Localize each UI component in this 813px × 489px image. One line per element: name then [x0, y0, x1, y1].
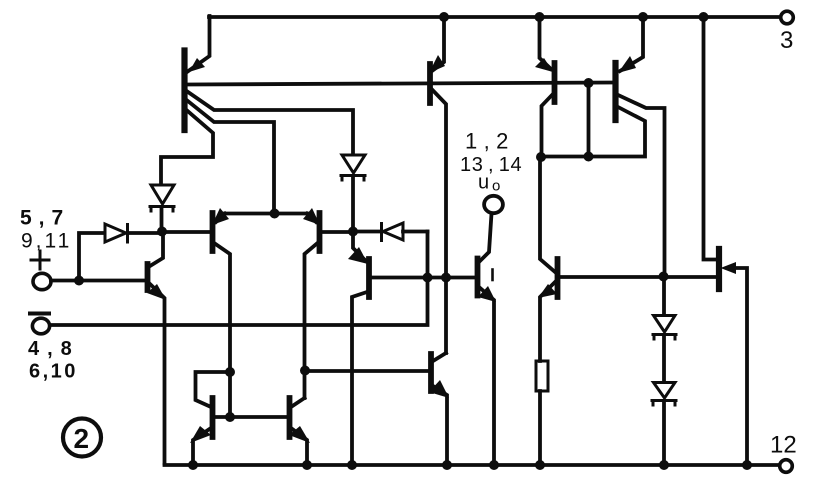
wire Q10 collector from node E	[540, 157, 555, 272]
wire Q1 collector 2 to node A	[187, 100, 275, 208]
junction dot rail x494	[489, 460, 499, 470]
wire Q8 base from node D	[305, 369, 429, 373]
transistor Q6 emitter arrow	[478, 286, 496, 302]
wire Q14 collector diag	[291, 398, 305, 407]
junction dot rail top x643	[638, 12, 648, 22]
diode D1	[150, 185, 174, 211]
wire Q9 emitter from rail	[540, 17, 552, 69]
transistor Q2 input NPN bar	[145, 264, 151, 290]
wire Q5 collector down to bottom rail	[352, 292, 367, 465]
transistor Q7 top PNP bar	[427, 64, 433, 103]
diode D6	[652, 383, 676, 406]
transistor Q14 emitter arrow	[289, 426, 310, 443]
wire Q7 collector down x446	[432, 89, 447, 353]
diode D5	[653, 316, 676, 340]
transistor Q4 emitter arrow	[307, 214, 316, 223]
wire D3 cathode to Q3 base	[128, 232, 210, 233]
junction dot riser base	[423, 273, 433, 283]
svg-text:1 , 2: 1 , 2	[465, 129, 509, 154]
transistor Q13 emitter arrow	[190, 426, 211, 443]
svg-text:6,10: 6,10	[29, 361, 78, 383]
transistor Q14 NPN bar	[287, 398, 293, 437]
wire Q8 collector diag	[433, 353, 446, 361]
transistor Q7 emitter arrow	[429, 55, 445, 73]
wire Q8 emitter to bottom rail	[433, 386, 447, 465]
wire top rail left end down to Q1 emitter	[187, 16, 210, 72]
junction dot rail top x444	[439, 12, 449, 22]
svg-text:3: 3	[780, 27, 793, 54]
junction dot base tap top	[584, 78, 594, 88]
transistor Q10 NPN bar	[555, 259, 561, 297]
wire Q6 emitter to bottom rail	[479, 287, 494, 465]
svg-text:o: o	[492, 178, 500, 195]
wire minus input to vertical riser	[50, 232, 428, 326]
wire D6 to bottom rail	[662, 401, 666, 465]
wire Q11 collector 2 to node E bus	[541, 107, 645, 157]
junction dot rail top x540	[535, 12, 545, 22]
resistor R1	[536, 361, 548, 391]
transistor Q5 PNP bar	[366, 259, 372, 297]
wire Q13 collector loop	[196, 372, 231, 407]
transistor Q9 emitter arrow	[535, 58, 553, 72]
terminal minus input circle	[32, 318, 49, 334]
junction dot rail x664	[659, 460, 669, 470]
svg-text:12: 12	[770, 432, 797, 459]
wire base bus y=277.5 Q5 to Q6	[372, 276, 475, 280]
wire D5 to D6	[662, 335, 666, 382]
wire plus input to Q2 base	[51, 279, 145, 283]
junction dot rail top x703	[699, 12, 709, 22]
junction dot x446 base	[441, 273, 451, 283]
transistor Q2 emitter arrow	[147, 284, 166, 300]
junction dot rail x540	[535, 460, 545, 470]
wire mirror emitter bus y=214	[225, 212, 307, 216]
wire base bus tap x588	[587, 83, 591, 157]
junction dot collector loop	[225, 367, 235, 377]
wire base bus of top PNPs y=83	[188, 83, 613, 85]
wire Q14 emitter to bottom rail	[291, 428, 307, 465]
transistor Q9 PNP bar	[552, 63, 558, 102]
terminal 3 circle	[781, 11, 794, 24]
wire Q5 emitter from node C	[353, 232, 366, 262]
junction dot rail x447	[442, 460, 452, 470]
node C junction dot	[348, 227, 358, 237]
wire top supply rail	[209, 15, 779, 19]
wire input node up and right to diode D3	[79, 233, 104, 280]
wire base node to diode D5	[662, 277, 666, 316]
transistor Q11 emitter arrow	[618, 56, 636, 73]
wire node C to diode D4	[353, 230, 380, 234]
minus sign	[30, 312, 49, 316]
terminal plus input circle	[33, 273, 51, 289]
wire Q11 collector 1 down x664	[618, 95, 665, 277]
junction dot base tap bottom	[584, 152, 594, 162]
wire Q12 collector from rail x703	[704, 17, 717, 260]
svg-text:13 , 14: 13 , 14	[460, 154, 522, 176]
wire Q4 collector down	[305, 243, 318, 398]
svg-text:5,7: 5,7	[20, 207, 70, 230]
transistor Q10 emitter arrow	[538, 284, 557, 298]
junction dot mirror base	[225, 412, 235, 422]
diode D2	[341, 155, 365, 180]
transistor Q4 PNP bar	[317, 213, 323, 251]
wire bottom rail	[165, 463, 780, 467]
node B junction dot	[157, 227, 167, 237]
terminal u0 circle	[484, 196, 503, 213]
transistor Q1 multi-collector PNP bar	[181, 51, 187, 131]
transistor Q8 NPN bar	[428, 354, 434, 391]
svg-text:u: u	[478, 172, 489, 194]
wire Q7 emitter from rail	[432, 17, 444, 71]
svg-text:4,8: 4,8	[28, 338, 80, 360]
wire D2 cathode to node C	[351, 176, 355, 232]
junction dot rail x747	[742, 460, 752, 470]
wire D4 anode to riser	[403, 230, 428, 234]
diode D4	[382, 223, 404, 241]
transistor Q11 dual-collector PNP bar	[612, 63, 618, 120]
wire Q4 base to node C	[322, 230, 352, 234]
transistor Q8 emitter arrow	[429, 380, 449, 398]
junction dot rail x307	[302, 460, 312, 470]
transistor Q6 NPN bar	[475, 259, 481, 296]
svg-text:2: 2	[74, 423, 90, 454]
wire Q9 collector down to node E	[542, 95, 553, 157]
plus sign	[31, 251, 49, 269]
node A circle	[270, 209, 280, 219]
transistor Q12 output PNP bar	[716, 249, 722, 289]
wire Q1 collector 1 to diode D2	[187, 91, 354, 153]
wire Q10 emitter down to resistor R1	[540, 282, 555, 361]
wire u0 terminal to Q6 collector	[479, 214, 492, 263]
wire Q3 collector down	[214, 243, 230, 417]
terminal 12 circle	[780, 460, 793, 473]
wire Q2 collector up to node B	[150, 232, 163, 267]
wire mirror base bus y=417	[215, 415, 287, 419]
junction dot input node	[74, 276, 84, 286]
junction dot base node x663	[659, 272, 669, 282]
stray mark right of Q6	[491, 270, 494, 281]
wire D1 cathode to node B	[160, 207, 164, 232]
svg-text:9,11: 9,11	[21, 230, 72, 253]
transistor Q3 emitter arrow	[216, 214, 225, 223]
wire Q1 collector 3 to diode D1	[161, 110, 213, 184]
wire R1 to bottom rail	[538, 391, 542, 465]
junction dot node E	[536, 152, 546, 162]
wire Q10 base to Q12	[560, 275, 717, 279]
transistor Q13 NPN bar	[210, 398, 216, 437]
transistor Q12 emitter arrow	[721, 262, 737, 274]
figure number circled 2	[63, 419, 101, 457]
wire Q11 emitter from rail	[620, 17, 643, 71]
junction dot rail x352	[347, 460, 357, 470]
wire Q2 emitter down to bottom rail	[150, 284, 165, 464]
junction dot rail x193	[188, 460, 198, 470]
transistor Q5 emitter arrow	[348, 247, 368, 264]
node D junction dot	[300, 366, 310, 376]
transistor Q3 PNP bar	[210, 213, 216, 251]
wire Q13 emitter to bottom rail	[193, 428, 211, 465]
transistor Q1 emitter arrow	[189, 58, 205, 72]
wire Q12 emitter to bottom rail	[734, 268, 747, 465]
diode D3	[105, 224, 128, 242]
